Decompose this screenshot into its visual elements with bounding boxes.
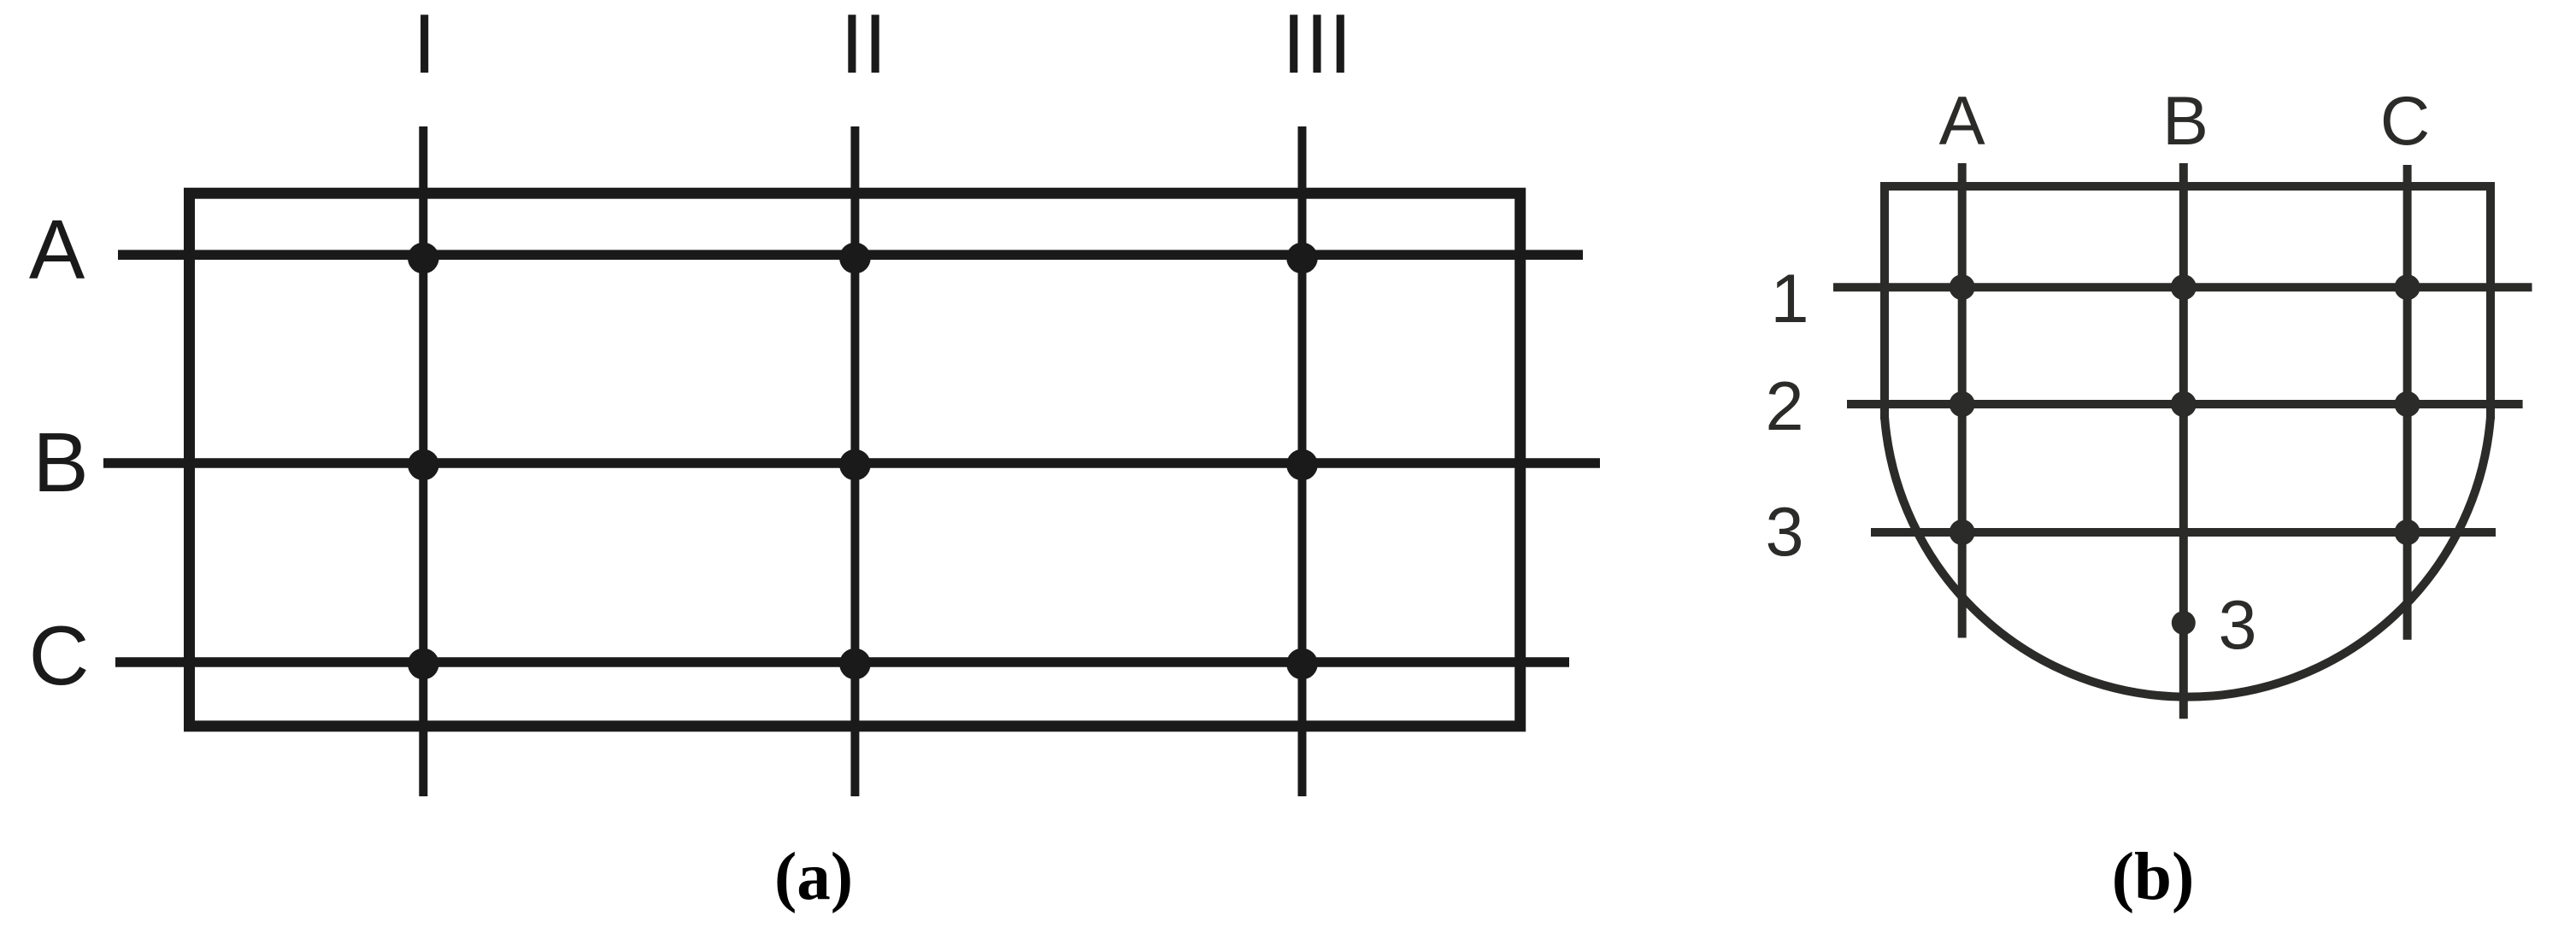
junction A-I <box>408 243 439 274</box>
wire row A <box>118 249 1583 260</box>
svg-text:3: 3 <box>1765 494 1803 571</box>
junction A-2 (b) <box>1950 391 1975 417</box>
wire column III <box>1298 126 1307 796</box>
wire row 2 (b) <box>1847 400 2523 408</box>
wire row C <box>115 657 1569 667</box>
junction A-III <box>1286 243 1318 274</box>
svg-text:2: 2 <box>1765 368 1803 445</box>
svg-text:3: 3 <box>2218 587 2256 664</box>
junction C-II <box>839 648 871 680</box>
svg-text:II: II <box>840 0 886 91</box>
junction A-1 (b) <box>1950 274 1975 300</box>
wire row 3 (b) <box>1871 528 2496 537</box>
wafer outline (b): flat-top tub <box>1885 186 2491 420</box>
junction C-3 (b) <box>2395 519 2420 545</box>
wire column B (b) <box>2179 163 2188 719</box>
wire column I <box>419 126 427 796</box>
wire row 1 (b) <box>1833 283 2532 291</box>
svg-text:C: C <box>2380 83 2431 160</box>
svg-text:III: III <box>1282 0 1352 91</box>
wire column II <box>850 126 859 796</box>
crossbar rectangle (a) <box>190 193 1520 726</box>
wire column C (b) <box>2403 165 2412 640</box>
junction B-II <box>839 449 871 481</box>
svg-text:B: B <box>32 415 88 509</box>
junction A-II <box>839 243 871 274</box>
junction B-2 (b) <box>2171 391 2197 417</box>
junction B-III <box>1286 449 1318 481</box>
junction C-1 (b) <box>2395 274 2420 300</box>
svg-text:C: C <box>29 608 90 702</box>
svg-text:1: 1 <box>1770 261 1808 337</box>
svg-text:I: I <box>413 0 436 91</box>
wire row B <box>103 458 1600 468</box>
wire column A (b) <box>1958 163 1967 638</box>
junction A-3 (b) <box>1950 519 1975 545</box>
junction B-I <box>408 449 439 481</box>
junction C-2 (b) <box>2395 391 2420 417</box>
svg-text:A: A <box>29 202 85 296</box>
svg-text:A: A <box>1939 83 1985 160</box>
svg-text:(a): (a) <box>774 840 853 914</box>
junction C-III <box>1286 648 1318 680</box>
junction C-I <box>408 648 439 680</box>
wafer arc (b) <box>1885 417 2491 697</box>
svg-text:(b): (b) <box>2112 840 2195 914</box>
svg-text:B: B <box>2162 83 2208 160</box>
die site dot on column B (b) <box>2172 611 2196 635</box>
junction B-1 (b) <box>2171 274 2197 300</box>
